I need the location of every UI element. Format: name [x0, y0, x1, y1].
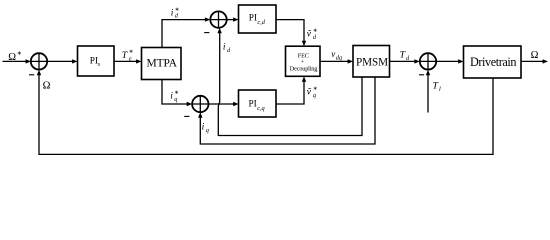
node Omega* label: [8, 51, 22, 63]
node id* label: [171, 7, 180, 20]
wire PIcq to FEC bottom (vq* path): [276, 76, 306, 104]
svg-text:d: d: [313, 34, 317, 41]
svg-text:c,d: c,d: [257, 19, 265, 26]
summing junction S1: [31, 53, 47, 69]
node Te* label: [122, 49, 134, 63]
svg-text:T: T: [400, 50, 406, 61]
wire id feedback from PMSM to S2: [217, 28, 362, 136]
svg-text:Ω: Ω: [8, 52, 16, 63]
svg-text:Ω: Ω: [531, 50, 539, 61]
wire FEC to PMSM: [320, 59, 353, 63]
wire S4 to Drivetrain: [436, 59, 463, 63]
block PMSM: [353, 46, 390, 78]
svg-text:d: d: [227, 47, 231, 54]
svg-text:Drivetrain: Drivetrain: [470, 55, 516, 69]
wire Tl input to S4: [426, 70, 430, 113]
svg-text:i: i: [171, 8, 174, 18]
svg-text:∗: ∗: [129, 49, 134, 55]
svg-text:+: +: [301, 58, 305, 65]
wire MTPA top to S2 (id* path): [162, 17, 210, 47]
svg-text:v: v: [331, 49, 335, 59]
svg-text:i: i: [170, 91, 173, 101]
wire PMSM to S4 (Td): [390, 59, 420, 63]
node iq feedback label: [202, 122, 209, 134]
svg-text:PI: PI: [249, 14, 257, 24]
svg-text:d: d: [175, 12, 179, 19]
wire Omega* input: [3, 59, 32, 63]
block Drivetrain: [464, 46, 522, 78]
wire S2 to PIcd: [227, 17, 239, 21]
svg-text:dq: dq: [336, 54, 342, 61]
svg-text:T: T: [122, 50, 128, 61]
wire PIcd to FEC top (vd* path): [276, 20, 306, 47]
svg-text:Ω: Ω: [43, 81, 51, 92]
wire Omega feedback from Drivetrain to S1: [37, 70, 493, 155]
svg-text:MTPA: MTPA: [147, 57, 178, 69]
svg-text:∗: ∗: [17, 51, 22, 57]
wire S1 to PIs: [47, 59, 77, 63]
svg-text:PMSM: PMSM: [356, 56, 388, 68]
svg-text:e: e: [129, 56, 132, 63]
svg-text:q: q: [174, 96, 177, 103]
wire MTPA bottom to S3 (iq* path): [162, 80, 192, 107]
wire Drivetrain output Omega: [521, 59, 548, 63]
svg-text:Decoupling: Decoupling: [290, 66, 318, 73]
svg-text:ṽ: ṽ: [307, 29, 312, 39]
node iq* label: [170, 90, 179, 103]
minus sign at S4: [419, 74, 424, 76]
node vdq label: [331, 49, 342, 62]
summing junction S2: [210, 11, 226, 27]
wire iq feedback from PMSM to S3: [198, 77, 375, 144]
node id feedback label: [223, 42, 231, 54]
minus sign at S3: [184, 115, 189, 117]
svg-text:i: i: [202, 122, 205, 132]
block PIcd: [239, 5, 277, 33]
svg-text:q: q: [313, 92, 316, 99]
svg-text:c,q: c,q: [257, 105, 265, 112]
svg-text:T: T: [433, 81, 439, 92]
summing junction S4: [420, 53, 436, 69]
minus sign at S1: [29, 74, 34, 76]
svg-text:l: l: [439, 86, 441, 93]
wire S3 to PIcq: [209, 102, 239, 106]
block PIs: [78, 46, 115, 76]
node vq* label: [307, 86, 318, 99]
wire PIs to MTPA: [114, 59, 142, 63]
minus sign at S2: [204, 32, 209, 34]
node Tl label: [433, 81, 442, 93]
block PIcq: [239, 90, 277, 117]
block MTPA: [142, 48, 182, 80]
block FEC + Decoupling: [286, 46, 321, 76]
summing junction S3: [192, 96, 208, 112]
node vd* label: [307, 28, 318, 41]
node Td label: [400, 50, 410, 62]
svg-text:q: q: [206, 127, 209, 134]
svg-text:PI: PI: [249, 99, 257, 109]
svg-text:i: i: [223, 42, 226, 52]
svg-text:ṽ: ṽ: [307, 87, 312, 97]
